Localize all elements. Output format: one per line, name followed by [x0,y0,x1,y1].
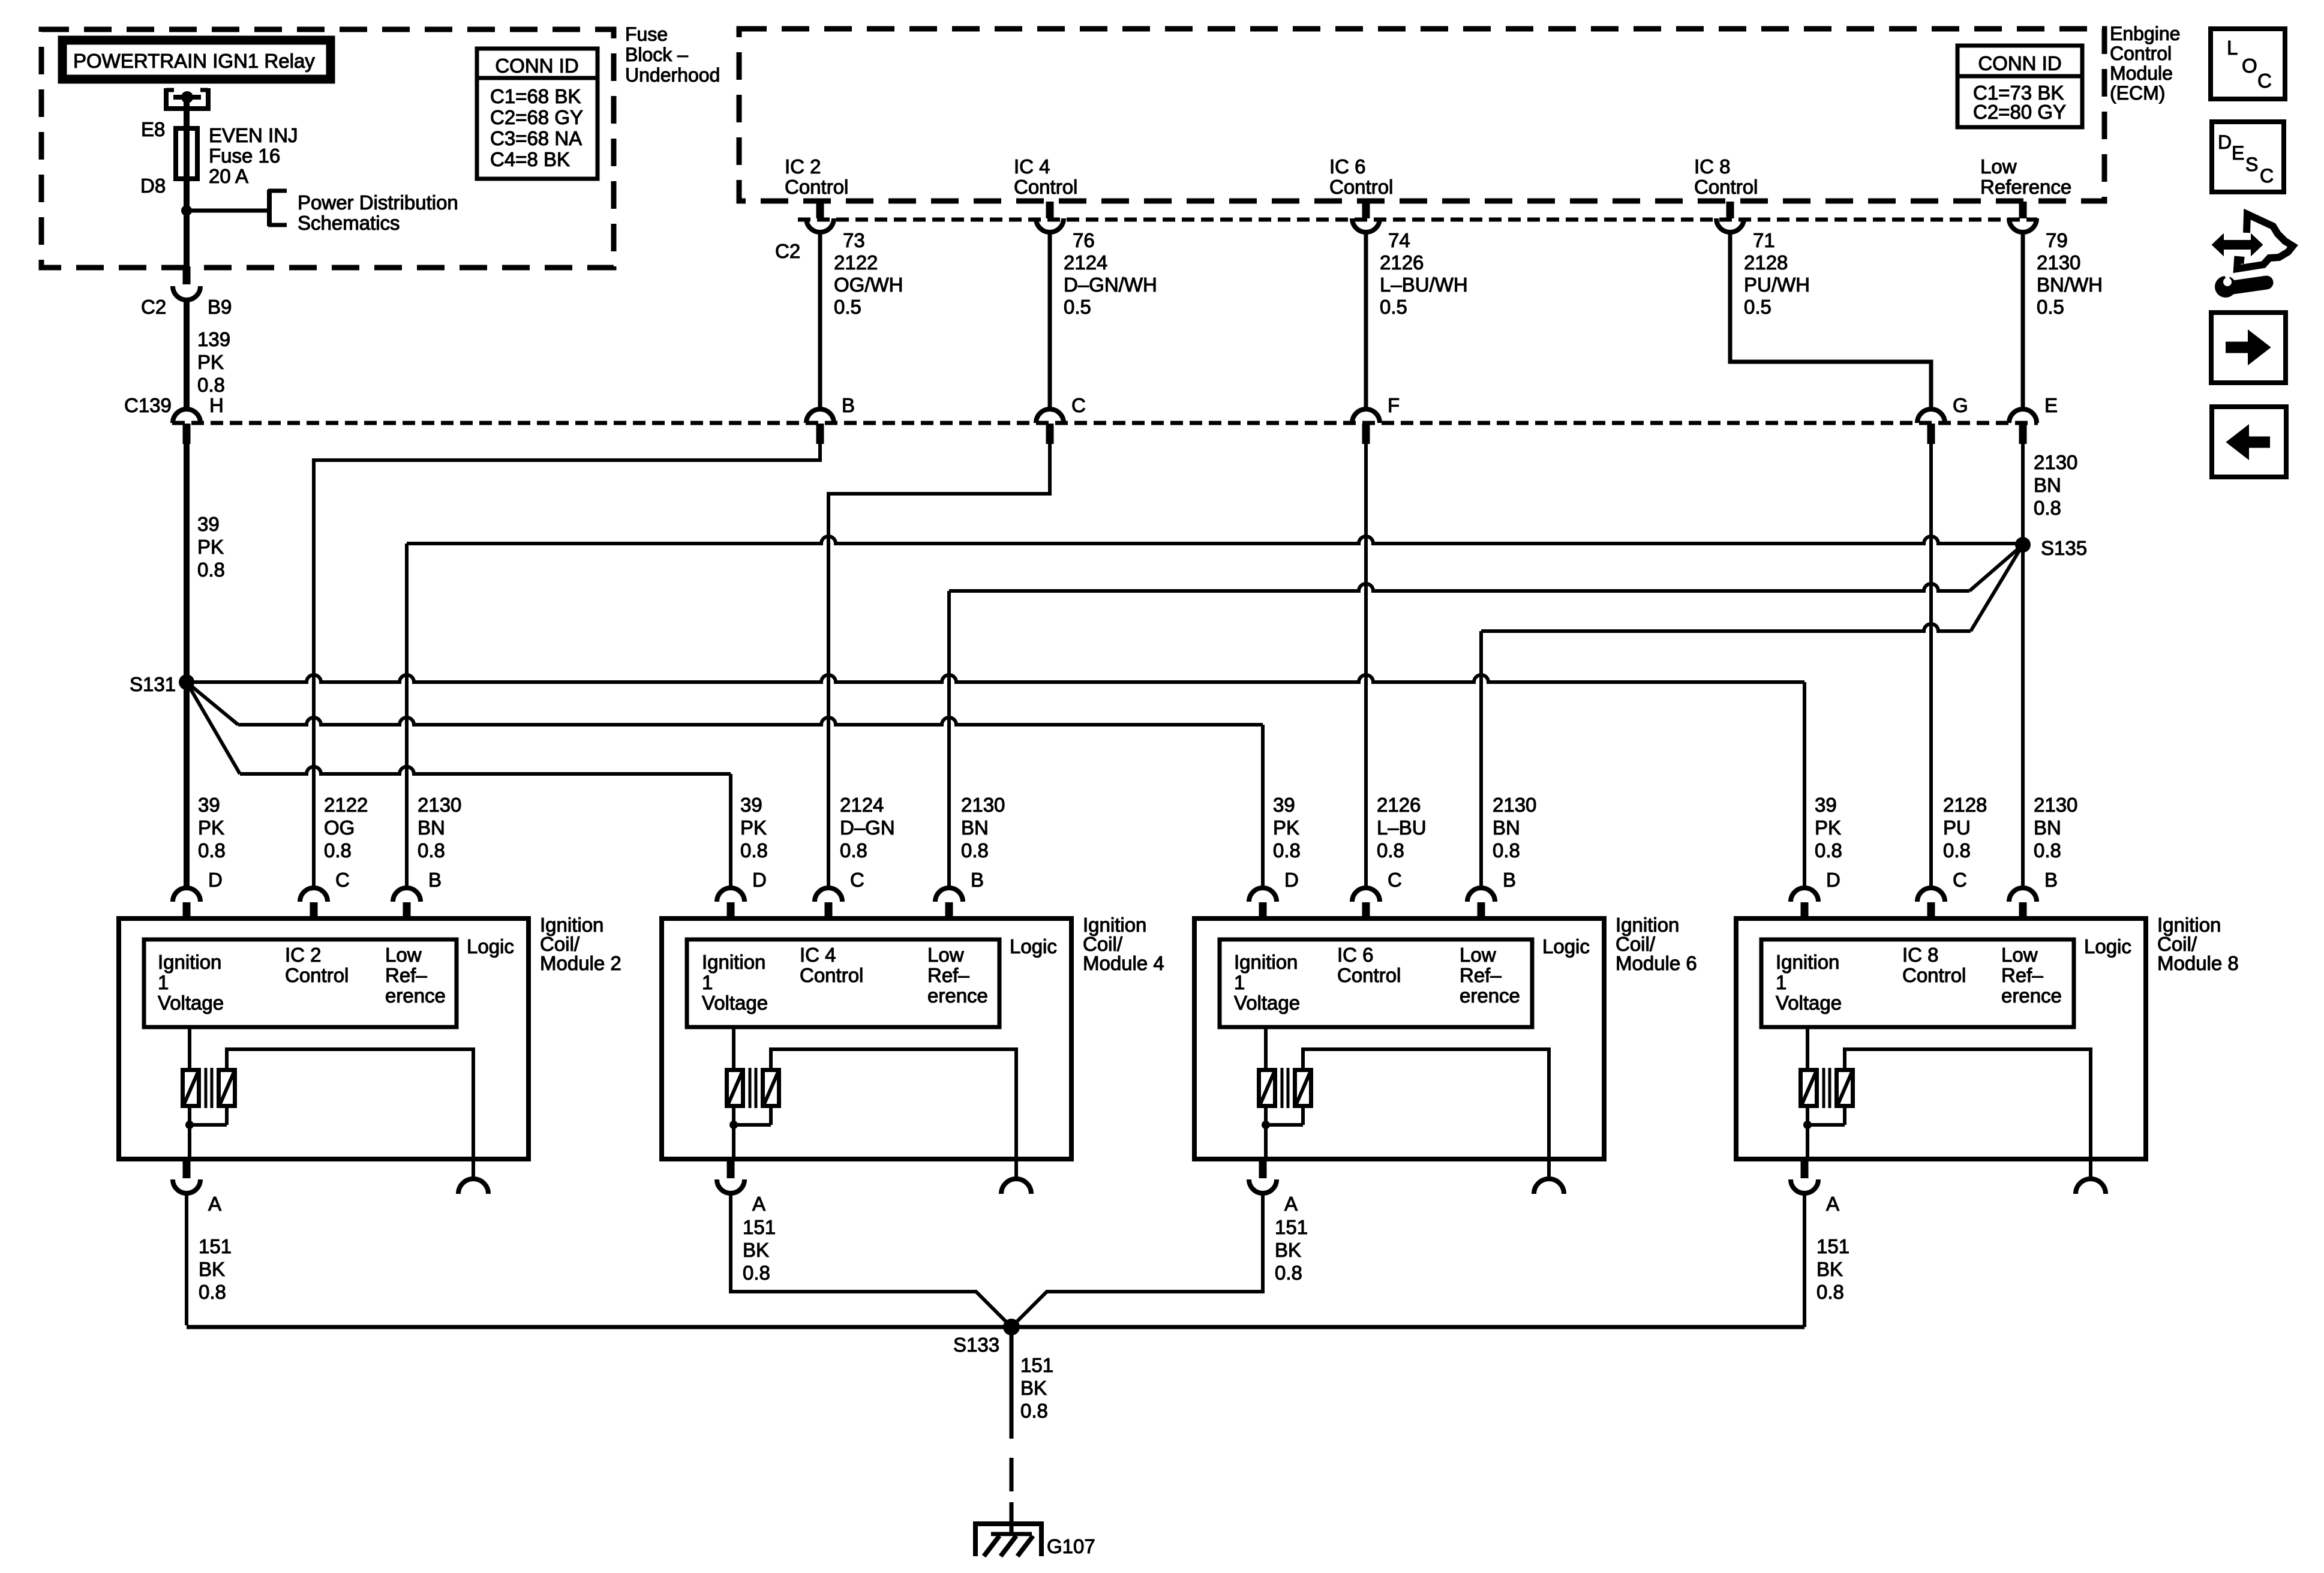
wrench [2215,269,2266,298]
module 6 primary coil winding [1264,1027,1268,1068]
svg-text:0.8: 0.8 [840,839,867,861]
module 4 pin C connector [815,888,842,902]
module 6 coil common node [1264,1108,1268,1125]
svg-text:0.8: 0.8 [418,839,445,861]
svg-text:PK: PK [1273,816,1299,839]
svg-text:Ref–: Ref– [927,964,969,986]
svg-text:0.5: 0.5 [1380,296,1407,318]
svg-text:C: C [2260,165,2274,187]
svg-text:C139: C139 [124,394,172,416]
relay K? POWERTRAIN IGN1 Relay box [62,40,331,79]
svg-text:L: L [2227,37,2238,59]
module 4 pin A connector [732,1125,735,1159]
svg-text:Underhood: Underhood [625,64,720,86]
svg-text:1: 1 [702,971,713,993]
wire W1: S131 to module8 D [187,675,1804,682]
ignition coil/module 4 box [662,918,1071,1159]
svg-text:B: B [2044,869,2058,891]
svg-text:1: 1 [1234,971,1245,993]
svg-text:IC 2: IC 2 [785,155,821,178]
svg-text:71: 71 [1753,229,1775,251]
svg-text:2122: 2122 [324,794,368,816]
ignition coil/module 2 box [119,918,529,1159]
svg-text:PU: PU [1943,816,1971,839]
svg-text:Low: Low [1460,944,1496,966]
wire 73 2122 OG/WH (IC2 to C139 B) [818,232,822,410]
svg-text:Ignition: Ignition [1776,951,1839,973]
module 8 coil common node [1806,1108,1809,1125]
svg-text:C: C [1388,869,1402,891]
svg-text:F: F [1388,394,1400,416]
svg-text:BN/WH: BN/WH [2037,274,2103,296]
CONN ID table (ECM) [1957,46,2082,127]
ECM pin Low Reference connector [2019,202,2027,218]
svg-text:79: 79 [2046,229,2068,251]
svg-text:Voltage: Voltage [158,992,224,1014]
module 2 primary coil winding [188,1027,191,1068]
svg-text:D: D [208,869,223,891]
svg-text:2130: 2130 [2034,794,2077,816]
svg-text:1: 1 [158,971,169,993]
svg-text:IC 4: IC 4 [800,944,836,966]
svg-text:BN: BN [2034,474,2061,496]
wire 151 BK 0.8 to ground [1010,1327,1014,1439]
svg-text:0.8: 0.8 [740,839,768,861]
svg-text:151: 151 [1816,1235,1849,1257]
relay contact symbol [166,88,174,92]
svg-text:Logic: Logic [1010,935,1057,957]
svg-text:BK: BK [1816,1258,1843,1280]
svg-text:Ref–: Ref– [1460,964,1502,986]
module 8 pin D connector [1791,888,1818,902]
svg-text:Logic: Logic [1542,935,1590,957]
svg-text:0.8: 0.8 [1493,839,1520,861]
module 2 coil core [205,1068,208,1108]
svg-text:0.8: 0.8 [1943,839,1971,861]
svg-text:IC 4: IC 4 [1014,155,1050,178]
svg-text:Voltage: Voltage [1234,992,1300,1014]
svg-text:2130: 2130 [1493,794,1536,816]
svg-text:C3=68 NA: C3=68 NA [490,127,582,149]
module 2 secondary output to terminal [227,1049,473,1159]
svg-text:Low: Low [1980,155,2017,178]
svg-text:2124: 2124 [840,794,884,816]
fuse F16 EVEN INJ [184,130,190,211]
svg-text:E: E [2044,394,2058,416]
svg-text:erence: erence [1460,984,1520,1007]
svg-text:39: 39 [197,513,220,535]
svg-text:C: C [850,869,864,891]
svg-text:39: 39 [1815,794,1837,816]
svg-text:BK: BK [743,1239,769,1261]
svg-text:Control: Control [1329,176,1393,198]
svg-text:1: 1 [1776,971,1786,993]
svg-text:L–BU: L–BU [1377,816,1427,839]
svg-text:Power Distribution: Power Distribution [298,191,458,214]
ECM pin IC4 connector [1046,202,1054,218]
module 4 coil common node [732,1108,735,1125]
svg-text:0.5: 0.5 [1744,296,1771,318]
svg-text:S131: S131 [130,673,176,695]
wire to power distribution bracket [187,209,269,213]
svg-text:C: C [1953,869,1967,891]
svg-text:Logic: Logic [2084,935,2131,957]
wire: module2 B low ref to S135 [405,544,409,888]
svg-text:C2: C2 [775,240,800,262]
svg-text:Module 8: Module 8 [2157,952,2239,974]
svg-text:IC 8: IC 8 [1902,944,1939,966]
module 8 secondary coil winding [1837,1070,1853,1106]
svg-text:BN: BN [1493,816,1520,839]
svg-text:PK: PK [197,351,224,373]
svg-text:D: D [1826,869,1840,891]
svg-text:A: A [1826,1193,1839,1215]
svg-text:0.8: 0.8 [1815,839,1842,861]
icon back arrow [2212,407,2286,477]
svg-text:E8: E8 [141,118,165,140]
C139 pin E [2009,409,2037,423]
svg-text:EVEN INJ: EVEN INJ [209,124,298,146]
svg-text:0.8: 0.8 [1275,1262,1302,1284]
svg-text:B: B [971,869,984,891]
ECM pin IC8 connector [1727,202,1734,218]
svg-text:0.5: 0.5 [1064,296,1091,318]
svg-text:0.8: 0.8 [1377,839,1404,861]
wire 76 2124 D-GN/WH (IC4 to C139 C) [1048,232,1052,410]
svg-text:Fuse 16: Fuse 16 [209,145,280,167]
icon LOC [2211,29,2285,99]
svg-text:0.8: 0.8 [199,1281,226,1303]
connector C139 pin H [173,409,200,423]
module 4 secondary coil winding [763,1070,779,1106]
svg-text:BN: BN [961,816,989,839]
svg-text:Voltage: Voltage [1776,992,1842,1014]
svg-text:O: O [2242,55,2257,77]
wire 2126 L-BU (C139 F to module6 C) [1364,444,1368,888]
svg-text:S133: S133 [953,1334,999,1356]
svg-text:G107: G107 [1047,1535,1095,1557]
svg-text:0.8: 0.8 [198,839,226,861]
svg-text:PK: PK [197,536,224,558]
junction node (to power distribution) [181,205,192,216]
svg-text:Ignition: Ignition [158,951,221,973]
svg-text:D8: D8 [140,175,166,197]
svg-text:B: B [1503,869,1516,891]
svg-text:2130: 2130 [961,794,1005,816]
splice S133 [1003,1319,1020,1335]
svg-text:C2: C2 [141,296,166,318]
svg-text:Low: Low [2001,944,2038,966]
svg-text:Schematics: Schematics [298,212,400,234]
svg-text:73: 73 [843,229,865,251]
svg-text:IC 6: IC 6 [1337,944,1374,966]
module 8 primary coil winding [1806,1027,1809,1068]
svg-text:PK: PK [1815,816,1841,839]
svg-text:IC 2: IC 2 [285,944,322,966]
C139 pin C [1036,409,1064,423]
svg-text:POWERTRAIN IGN1 Relay: POWERTRAIN IGN1 Relay [73,50,315,72]
svg-text:Control: Control [1694,176,1758,198]
svg-text:G: G [1953,394,1968,416]
module 4 pin B connector [935,888,963,902]
module 2 pin D connector [173,888,200,902]
wire 2122 OG (C139 B to module2 C) [314,444,820,888]
svg-text:erence: erence [2001,984,2062,1007]
svg-text:Control: Control [800,964,863,986]
svg-text:20 A: 20 A [209,165,248,187]
module 2 secondary coil winding [219,1070,235,1106]
wire W3: S131 to module4 D [187,682,240,774]
svg-text:Voltage: Voltage [702,992,768,1014]
svg-text:CONN ID: CONN ID [1978,52,2061,74]
module 6 coil core [1281,1068,1284,1108]
module 4 primary coil winding [732,1027,735,1068]
module 8 pin C connector [1917,888,1945,902]
module 4 coil core [749,1068,752,1108]
svg-text:B: B [428,869,442,891]
svg-text:Control: Control [1902,964,1966,986]
svg-text:0.8: 0.8 [2034,497,2061,519]
wire: module6 B low ref to S135 [1479,631,1483,888]
svg-text:151: 151 [743,1216,776,1238]
wire 74 2126 L-BU/WH (IC6 to C139 F) [1364,232,1368,410]
svg-text:2124: 2124 [1064,251,1107,274]
module 8 coil core [1822,1068,1825,1108]
svg-text:2130: 2130 [2037,251,2080,274]
wire 2128 PU (C139 G to module8 C) [1929,444,1933,888]
svg-text:0.8: 0.8 [1020,1400,1048,1422]
svg-text:IC 8: IC 8 [1694,155,1731,178]
svg-text:H: H [209,394,224,416]
svg-text:erence: erence [927,984,988,1007]
svg-text:2126: 2126 [1380,251,1424,274]
svg-text:A: A [208,1193,221,1215]
module 6 secondary output to terminal [1303,1049,1549,1159]
svg-text:BK: BK [199,1258,225,1280]
wire 39 PK 0.8 (H to S131) [184,444,190,682]
connector C2 pin B9 (fuse block bottom) [183,266,191,284]
svg-text:BK: BK [1020,1377,1047,1399]
svg-text:D–GN/WH: D–GN/WH [1064,274,1157,296]
svg-text:0.8: 0.8 [743,1262,770,1284]
svg-text:2128: 2128 [1744,251,1788,274]
wire: fuse block output [184,211,190,268]
svg-text:0.5: 0.5 [2037,296,2064,318]
svg-text:151: 151 [199,1235,232,1257]
svg-text:Low: Low [927,944,964,966]
svg-text:D–GN: D–GN [840,816,895,839]
svg-text:Module 2: Module 2 [540,952,621,974]
svg-text:76: 76 [1073,229,1095,251]
svg-text:Control: Control [1014,176,1077,198]
module 8 pin A connector [1806,1125,1809,1159]
icon forward arrow [2211,313,2286,383]
svg-text:Low: Low [385,944,422,966]
svg-text:Block –: Block – [625,44,688,65]
wire 151 BK (module8 A down) [1803,1193,1806,1327]
module 2 coil common node [188,1108,191,1125]
svg-text:C: C [2257,70,2272,92]
ECM connector C2 dotted line [798,218,2037,222]
svg-text:2128: 2128 [1943,794,1987,816]
module 4 secondary output to terminal [771,1049,1016,1159]
icon wiring/repair (arrow + wrench) [2212,235,2262,255]
svg-text:B9: B9 [208,296,232,318]
svg-text:Control: Control [2110,43,2172,64]
svg-text:E: E [2232,142,2244,164]
svg-text:C1=68 BK: C1=68 BK [490,85,581,107]
svg-text:PK: PK [740,816,767,839]
svg-text:0.5: 0.5 [834,296,861,318]
CONN ID table (fuse block) [477,49,597,179]
wire: S131 down to module2 D [184,682,190,888]
module 4 pin D connector [717,888,744,902]
splice S131 [179,674,194,690]
svg-text:D: D [2218,131,2232,153]
svg-text:C4=8 BK: C4=8 BK [490,148,570,170]
svg-text:2130: 2130 [418,794,461,816]
module 8 pin B connector [2009,888,2037,902]
svg-text:CONN ID: CONN ID [495,55,578,77]
svg-text:0.8: 0.8 [961,839,989,861]
module 8 secondary output to terminal [1845,1049,2091,1159]
connector C139 dashed line [172,421,2038,425]
svg-text:2126: 2126 [1377,794,1421,816]
svg-text:C2=68 GY: C2=68 GY [490,106,583,128]
svg-text:D: D [752,869,767,891]
svg-text:Control: Control [1337,964,1401,986]
svg-text:erence: erence [385,984,446,1007]
svg-text:Enbgine: Enbgine [2110,23,2180,44]
wire 151 BK (module2 A to S133 bus) [185,1193,188,1325]
svg-text:L–BU/WH: L–BU/WH [1380,274,1468,296]
svg-text:0.8: 0.8 [197,374,225,396]
module 6 pin D connector [1249,888,1277,902]
module 6 secondary coil winding [1295,1070,1311,1106]
svg-text:A: A [752,1193,765,1215]
svg-text:2130: 2130 [2034,451,2077,473]
svg-text:A: A [1284,1193,1298,1215]
svg-text:0.8: 0.8 [1273,839,1301,861]
svg-text:IC 6: IC 6 [1329,155,1366,178]
icon DESC [2212,122,2284,192]
svg-text:C: C [335,869,350,891]
wire 71 2128 PU/WH (IC8 to C139 G) [1730,232,1931,410]
wire 151 BK (module6 A to S133) [1011,1193,1263,1327]
module 2 pin C connector [300,888,328,902]
wire: module4 B low ref to S135 [947,591,951,888]
fuse block - underhood dashed box [41,29,614,268]
ignition coil/module 6 box [1194,918,1604,1159]
svg-text:S: S [2245,154,2258,175]
svg-text:C: C [1071,394,1086,416]
svg-text:Control: Control [785,176,848,198]
svg-text:PK: PK [198,816,224,839]
svg-text:BK: BK [1275,1239,1301,1261]
svg-text:S135: S135 [2041,537,2087,559]
module 6 pin B connector [1467,888,1495,902]
svg-text:74: 74 [1388,229,1410,251]
module 2 pin A connector [188,1125,191,1159]
module 6 pin A connector [1264,1125,1268,1159]
svg-text:Ref–: Ref– [385,964,427,986]
svg-text:B: B [842,394,855,416]
engine control module dashed box [739,29,2104,201]
svg-text:Ignition: Ignition [1234,951,1298,973]
svg-text:39: 39 [198,794,220,816]
svg-text:BN: BN [2034,816,2061,839]
svg-text:151: 151 [1275,1216,1308,1238]
wire 2130 BN (C139 E through S135 to module8 B) [2021,444,2025,888]
C139 pin G [1917,409,1945,423]
module 2 pin B connector [393,888,421,902]
svg-text:Module 4: Module 4 [1083,952,1164,974]
ignition coil/module 8 box [1736,918,2146,1159]
svg-text:(ECM): (ECM) [2110,82,2165,104]
svg-text:Control: Control [285,964,349,986]
svg-text:PU/WH: PU/WH [1744,274,1810,296]
wire 79 2130 BN/WH (LowRef to C139 E) [2021,232,2025,410]
svg-text:Reference: Reference [1980,176,2071,198]
svg-text:0.8: 0.8 [324,839,352,861]
svg-text:Ignition: Ignition [702,951,765,973]
svg-text:39: 39 [740,794,762,816]
svg-text:0.8: 0.8 [1816,1281,1844,1303]
module 6 pin C connector [1352,888,1380,902]
svg-text:BN: BN [418,816,445,839]
svg-text:139: 139 [197,328,230,350]
svg-text:Module: Module [2110,62,2173,84]
ECM pin IC6 connector [1362,202,1370,218]
svg-text:39: 39 [1273,794,1295,816]
C139 pin F [1352,409,1380,423]
ECM pin IC2 connector [816,202,824,218]
wire 2124 D-GN (C139 C to module4 C) [828,444,1050,888]
svg-text:151: 151 [1020,1354,1053,1376]
wire W2: S131 to module6 D [187,682,238,725]
splice S135 [2015,537,2031,553]
svg-text:OG/WH: OG/WH [834,274,903,296]
svg-text:D: D [1284,869,1299,891]
svg-text:C2=80 GY: C2=80 GY [1973,101,2066,123]
svg-text:Fuse: Fuse [625,23,668,45]
svg-text:0.8: 0.8 [197,559,225,581]
wire: relay to fuse [184,97,190,130]
svg-text:OG: OG [324,816,355,839]
svg-text:2122: 2122 [834,251,878,274]
svg-text:Logic: Logic [467,935,514,957]
ground G107 symbol [973,1521,1044,1526]
svg-text:0.8: 0.8 [2034,839,2061,861]
svg-text:Module 6: Module 6 [1616,952,1697,974]
power distribution schematics pointer bracket [267,190,272,226]
C139 pin B [806,409,834,423]
svg-text:Ref–: Ref– [2001,964,2043,986]
wire 139 PK 0.8 [184,300,190,410]
wire 151 BK (module4 A to S133) [731,1193,1011,1327]
